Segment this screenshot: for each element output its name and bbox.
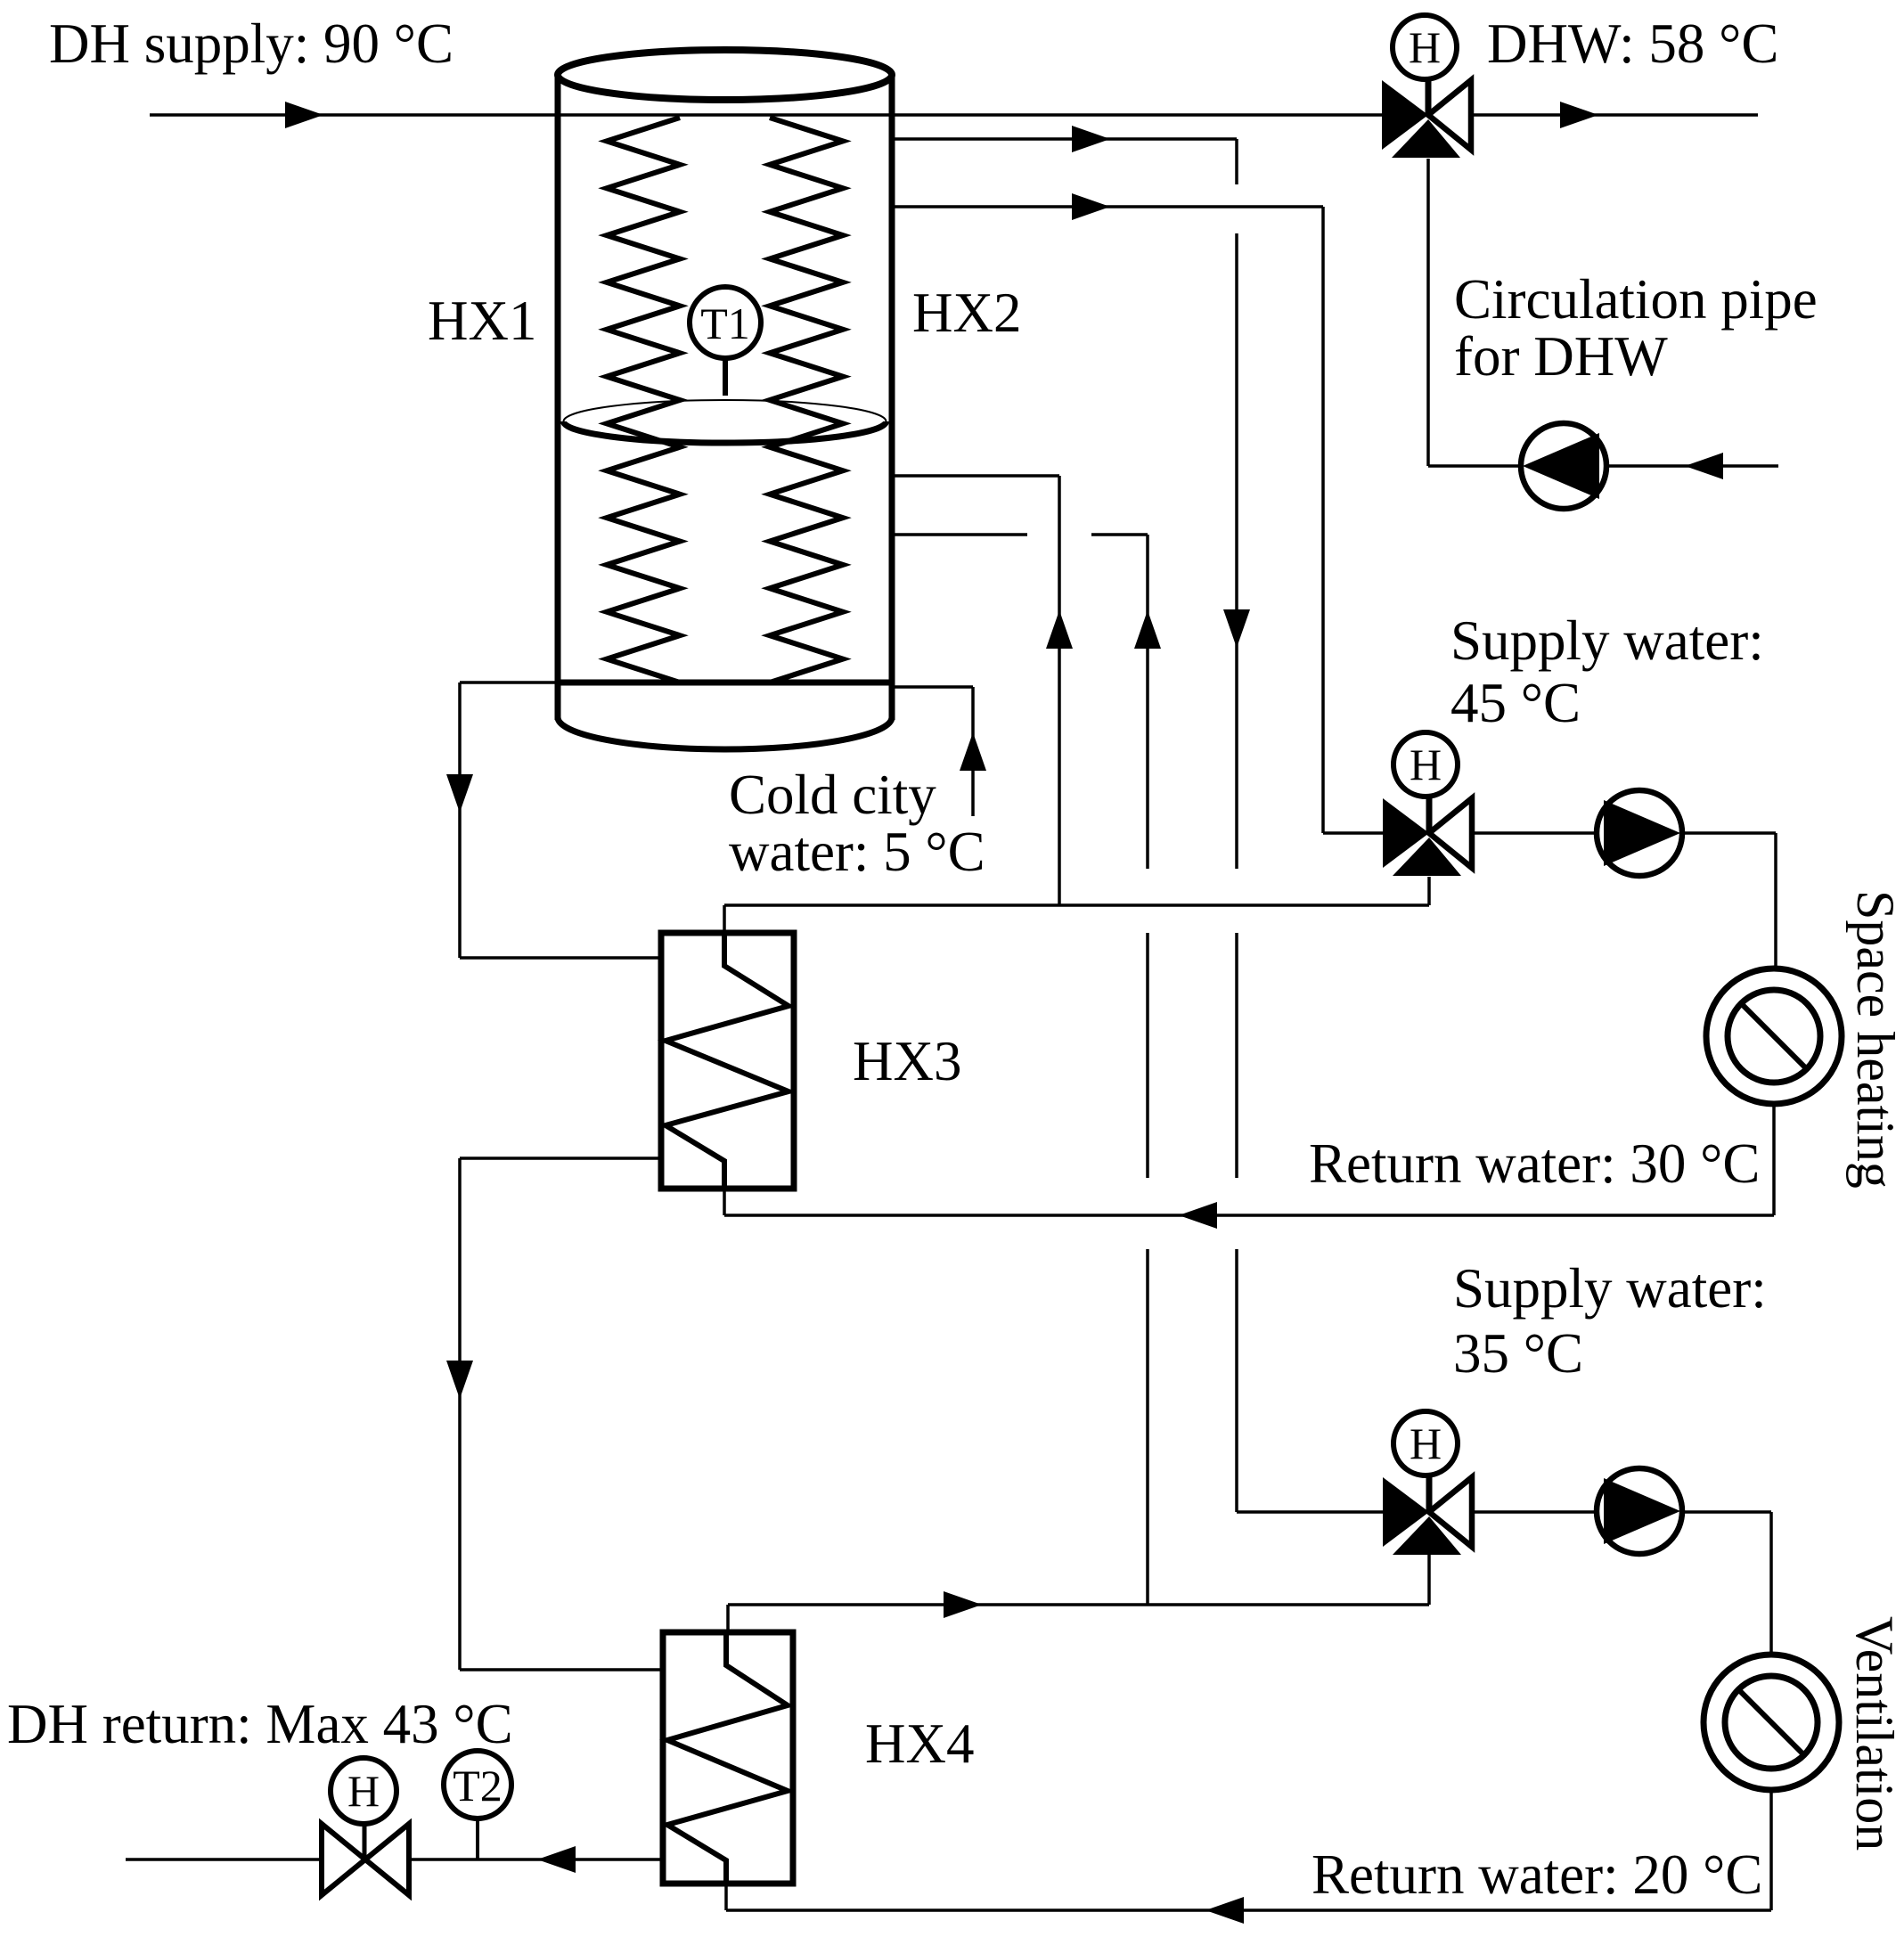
actuator H for V4 bbox=[331, 1758, 396, 1824]
wire space heating return drop bbox=[1772, 1104, 1776, 1215]
valve V4 two-way (DH return) bbox=[322, 1824, 365, 1895]
wire DH supply line into tank top bbox=[150, 113, 1382, 117]
pump P2 space heating bbox=[1597, 790, 1682, 876]
valve V2 three-way (45C) bbox=[1383, 798, 1429, 868]
wire HX4 top stub bbox=[726, 1605, 730, 1632]
valve V3 three-way (35C) bbox=[1383, 1477, 1429, 1547]
svg-text:Space heating: Space heating bbox=[1846, 890, 1904, 1189]
svg-text:HX2: HX2 bbox=[912, 282, 1022, 344]
wire 45C valve left inlet bbox=[1323, 831, 1383, 835]
heat exchanger HX3 box bbox=[661, 933, 794, 1189]
tank inner bottom line bbox=[558, 680, 892, 686]
arrow outlet3 right bbox=[1072, 193, 1110, 220]
svg-text:Ventilation: Ventilation bbox=[1845, 1616, 1904, 1851]
valve V1 three-way (DHW) bbox=[1382, 80, 1428, 150]
wire tank return riser upper (x=1189) bbox=[1058, 476, 1061, 905]
sensor T2 bbox=[444, 1751, 511, 1818]
arrow outlet2 right bbox=[1072, 126, 1110, 152]
svg-text:H: H bbox=[1409, 22, 1441, 72]
heat exchanger HX3 coil bbox=[666, 933, 789, 1189]
arrow DH supply right bbox=[285, 102, 323, 128]
svg-text:HX1: HX1 bbox=[428, 290, 537, 352]
svg-text:for DHW: for DHW bbox=[1454, 325, 1668, 388]
arrow riser1288 up bbox=[1134, 610, 1161, 649]
tank top ellipse bbox=[558, 50, 892, 100]
svg-text:HX4: HX4 bbox=[865, 1712, 975, 1775]
arrow HX4 header right bbox=[944, 1591, 982, 1618]
wire 35C valve left inlet bbox=[1237, 1510, 1384, 1514]
svg-text:DHW: 58 °C: DHW: 58 °C bbox=[1487, 12, 1778, 75]
svg-text:DH return: Max 43 °C: DH return: Max 43 °C bbox=[7, 1693, 513, 1755]
svg-text:35 °C: 35 °C bbox=[1453, 1322, 1583, 1385]
wire tank bottom left outlet bbox=[460, 681, 560, 684]
svg-text:Return water: 20 °C: Return water: 20 °C bbox=[1312, 1843, 1762, 1906]
load ventilation circle bbox=[1704, 1655, 1839, 1790]
wire 35C valve to pump to ventilation bbox=[1472, 1510, 1771, 1514]
tank mid ellipse thick bottom arc bbox=[564, 421, 887, 443]
wire tank outlet 3 to space heating riser bbox=[892, 205, 1323, 208]
svg-text:Circulation pipe: Circulation pipe bbox=[1454, 268, 1818, 331]
arrow DHW out right bbox=[1560, 102, 1598, 128]
wire DH return line bbox=[126, 1858, 663, 1861]
wire riser to 35C valve (x=1388) bbox=[1235, 139, 1238, 184]
wire HX4 top header to 35C valve bottom bbox=[728, 1603, 1429, 1606]
pump P1 circulation bbox=[1521, 423, 1606, 509]
wire cold city water inlet stub bbox=[892, 685, 973, 689]
arrow cold city up bbox=[960, 732, 986, 771]
coil HX2 (right) bbox=[770, 118, 843, 682]
svg-text:DH supply: 90 °C: DH supply: 90 °C bbox=[49, 12, 454, 75]
svg-text:HX3: HX3 bbox=[853, 1030, 962, 1092]
wire HX4 bottom stub bbox=[724, 1884, 728, 1910]
wire tank return port lower (jumps over riser) bbox=[892, 533, 1027, 536]
arrow riser1388 down bbox=[1223, 609, 1250, 648]
wire riser to 45C valve (x=1485) bbox=[1321, 207, 1325, 833]
svg-text:water: 5 °C: water: 5 °C bbox=[729, 821, 985, 883]
wire return water 20C line bbox=[726, 1908, 1771, 1912]
sensor T1 bbox=[723, 356, 728, 396]
wire DHW line from valve out bbox=[1471, 113, 1758, 117]
arrow downcomer1 down bbox=[446, 774, 473, 813]
svg-text:T2: T2 bbox=[453, 1761, 503, 1810]
wire HX3 top stub bbox=[723, 905, 726, 933]
arrow riser1189 up bbox=[1046, 610, 1073, 649]
arrow return30 left bbox=[1179, 1202, 1217, 1229]
wire circulation pipe horizontal bbox=[1428, 464, 1778, 468]
wire tank return riser lower (x=1288) bbox=[1146, 535, 1149, 869]
wire 45C valve return header bbox=[724, 903, 1429, 907]
wire HX3 to HX4 downcomer bbox=[460, 1156, 661, 1160]
load space heating circle bbox=[1706, 968, 1842, 1104]
coil HX1 (left) bbox=[607, 118, 680, 682]
svg-text:H: H bbox=[347, 1766, 380, 1816]
svg-text:Supply water:: Supply water: bbox=[1450, 609, 1764, 672]
svg-text:H: H bbox=[1410, 740, 1442, 789]
arrow return20 left bbox=[1205, 1897, 1244, 1924]
svg-text:Return water: 30 °C: Return water: 30 °C bbox=[1309, 1132, 1760, 1195]
wire tank outlet 2 to ventilation riser bbox=[892, 137, 1237, 141]
tank storage vessel walls bbox=[555, 75, 561, 720]
svg-text:Cold city: Cold city bbox=[729, 764, 936, 826]
actuator H for V3 bbox=[1393, 1411, 1458, 1475]
pump P3 ventilation bbox=[1597, 1468, 1682, 1554]
heat exchanger HX4 coil bbox=[667, 1632, 788, 1884]
wire 45C valve to pump to space heating bbox=[1472, 831, 1776, 835]
wire return water 30C line bbox=[724, 1214, 1774, 1217]
heat exchanger HX4 box bbox=[663, 1632, 793, 1884]
tank mid ellipse thin bbox=[564, 400, 887, 443]
arrow circulation left bbox=[1685, 453, 1723, 479]
wire cold water downcomer to HX3 bbox=[458, 682, 462, 958]
arrow DH return left bbox=[537, 1846, 576, 1873]
svg-text:Supply water:: Supply water: bbox=[1453, 1257, 1767, 1320]
wire ventilation return drop bbox=[1769, 1790, 1773, 1910]
actuator H for V1 bbox=[1393, 15, 1457, 79]
actuator H for V2 bbox=[1393, 732, 1458, 797]
wire tank return port upper bbox=[892, 474, 1059, 478]
wire HX3 bottom stub bbox=[723, 1189, 726, 1215]
wire circulation pipe vertical bbox=[1426, 159, 1430, 466]
svg-text:45 °C: 45 °C bbox=[1450, 672, 1581, 734]
tank bottom bbox=[558, 717, 892, 749]
svg-text:H: H bbox=[1410, 1418, 1442, 1468]
wire T2 stem bbox=[476, 1820, 479, 1859]
svg-text:T1: T1 bbox=[700, 298, 750, 348]
arrow downcomer2 down bbox=[446, 1361, 473, 1399]
